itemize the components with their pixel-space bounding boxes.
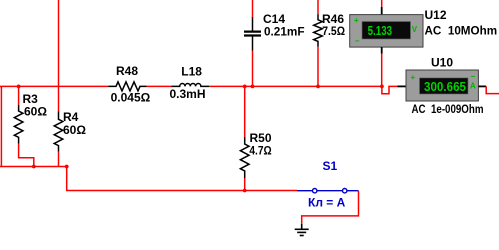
svg-text:AC 10MOhm: AC 10MOhm	[425, 24, 498, 38]
wire: between R48 and L18	[147, 85, 172, 87]
wire: C14 top lead from top edge	[252, 0, 254, 17]
node junction on main net at R46 branch	[316, 85, 320, 89]
wire: R3 top branch	[18, 86, 20, 104]
wire: R46 bottom lead to main net	[317, 47, 319, 87]
svg-text:0.21mF: 0.21mF	[264, 25, 305, 39]
switch S1	[297, 189, 359, 193]
wire: left edge vertical joining the two horizontal nets	[0, 86, 2, 166]
node junction on main net at R3	[17, 85, 21, 89]
svg-text:−: −	[471, 72, 476, 81]
wire: C14 bottom lead to main net	[252, 51, 254, 87]
wire: main net segment left edge to R48	[0, 85, 108, 87]
voltmeter U12	[350, 7, 423, 54]
inductor L18	[172, 84, 210, 87]
svg-text:7.5Ω: 7.5Ω	[322, 24, 345, 38]
wire: R3 bottom jog to net 2	[19, 144, 34, 167]
wire: U12 bottom terminal to main net	[381, 54, 383, 87]
svg-text:U10: U10	[431, 56, 453, 70]
resistor R50	[240, 137, 249, 178]
resistor R46	[314, 14, 323, 46]
svg-text:300.665: 300.665	[424, 79, 466, 94]
wire: U10 right terminal jog to right edge	[486, 86, 499, 93]
node junction on main net at U12 branch	[380, 85, 384, 89]
wire: R4 bottom lead to net 2	[58, 152, 60, 167]
svg-text:60Ω: 60Ω	[63, 123, 86, 137]
wire: vertical net through R4 from top edge	[58, 0, 60, 111]
node junction at net 2 corner	[65, 165, 69, 169]
svg-text:−: −	[355, 37, 360, 46]
capacitor C14	[244, 17, 261, 51]
svg-text:AC 1e-009Ohm: AC 1e-009Ohm	[412, 102, 484, 116]
resistor R3	[14, 105, 23, 144]
svg-text:0.045Ω: 0.045Ω	[111, 91, 151, 105]
svg-text:S1: S1	[323, 159, 338, 173]
ammeter U10	[398, 70, 487, 101]
node junction on main net at R50 branch	[243, 85, 247, 89]
ground	[295, 224, 309, 236]
svg-text:+: +	[354, 16, 359, 25]
svg-text:U12: U12	[425, 8, 447, 22]
wire: U12 top terminal from top edge	[381, 0, 383, 7]
svg-text:60Ω: 60Ω	[24, 105, 47, 119]
wire: horizontal net 2 from left edge	[0, 166, 67, 168]
svg-text:V: V	[412, 25, 418, 34]
svg-text:R4: R4	[63, 110, 79, 124]
wire: R50 top branch	[244, 86, 246, 137]
node junction on main net at C14 branch	[251, 85, 255, 89]
svg-text:5.133: 5.133	[368, 23, 393, 38]
wire: bottom net to switch	[245, 190, 297, 192]
wire: R46 top lead from top edge	[317, 0, 319, 14]
svg-text:Кл = А: Кл = А	[308, 196, 346, 210]
resistor R4	[54, 111, 63, 152]
svg-text:A: A	[470, 82, 476, 91]
svg-text:0.3mH: 0.3mH	[170, 87, 206, 101]
node junction on bottom net at R50	[243, 189, 247, 193]
wire: R50 bottom lead	[244, 178, 246, 191]
svg-text:4.7Ω: 4.7Ω	[249, 144, 272, 158]
node junction on net 2 at R3 jog	[32, 165, 36, 169]
wire: jog from junction into U10 left terminal	[382, 86, 398, 93]
resistor R48	[108, 82, 146, 91]
svg-text:+: +	[411, 73, 416, 82]
wire: net 2 corner down to bottom net	[67, 167, 245, 191]
wire: L18 to U12 junction	[209, 85, 382, 87]
svg-text:R48: R48	[116, 64, 138, 78]
svg-text:L18: L18	[181, 65, 202, 79]
wire: switch to ground run	[302, 191, 359, 224]
